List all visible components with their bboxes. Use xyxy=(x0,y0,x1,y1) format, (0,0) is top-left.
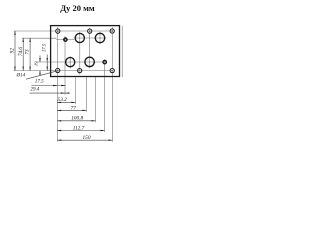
dim 112.7 bottom L6 xyxy=(57,125,104,131)
port I xyxy=(85,57,94,66)
ext col 53.2 xyxy=(74,77,76,105)
svg-text:29.4: 29.4 xyxy=(31,88,40,93)
bolt ring A xyxy=(55,29,60,34)
centerline row B y=39.6 xyxy=(56,39,74,41)
dim 19 vertical stub xyxy=(34,56,41,75)
centerline row top bolts y=31 xyxy=(14,30,115,32)
bolt ring D xyxy=(87,29,92,34)
svg-text:19: 19 xyxy=(34,61,39,66)
ext col 77 xyxy=(85,77,87,112)
dim 77 bottom L4 xyxy=(57,105,86,111)
column A/F + ext 17.5 xyxy=(56,27,58,141)
centerline row ports top y=38 xyxy=(22,37,57,39)
ext col 100.8 xyxy=(95,77,97,123)
column J + ext 112.7 xyxy=(104,59,106,132)
dim 100.8 bottom L5 xyxy=(57,116,95,122)
svg-text:73: 73 xyxy=(25,49,31,55)
column D/I xyxy=(89,28,91,69)
dim 150 bottom L7 xyxy=(57,135,112,141)
column TR/K + ext 150 xyxy=(111,27,113,141)
dim 92 vertical xyxy=(10,31,16,71)
bolt ring K xyxy=(110,68,115,73)
side edge line xyxy=(121,26,123,77)
dim 53.2 bottom L3 xyxy=(57,97,75,103)
svg-text:74.6: 74.6 xyxy=(17,47,24,56)
svg-text:17.5: 17.5 xyxy=(43,43,48,52)
centerline row ports bottom y=62 xyxy=(36,61,107,63)
label dia 14 + leader xyxy=(16,71,58,79)
column G xyxy=(69,56,71,69)
bolt ring F xyxy=(55,68,60,73)
small hole H xyxy=(78,69,82,73)
dim 17.5 bottom L1 xyxy=(32,80,66,87)
column B + ext 29.4 xyxy=(64,36,66,94)
svg-text:Ду 20 мм: Ду 20 мм xyxy=(60,3,95,13)
dim 73 vertical xyxy=(25,38,31,71)
dim 74.6 vertical xyxy=(17,38,24,71)
port E xyxy=(95,33,104,42)
plate outline xyxy=(51,26,120,77)
column C/H xyxy=(79,32,81,75)
svg-text:92: 92 xyxy=(10,48,16,54)
port C xyxy=(75,33,84,42)
centerline row bottom bolts y=70.6 xyxy=(14,70,115,72)
svg-text:17.5: 17.5 xyxy=(35,80,44,85)
port G xyxy=(66,58,75,67)
bolt ring TR xyxy=(110,28,115,33)
dim 17.5 vertical stub xyxy=(43,43,48,70)
column E xyxy=(99,32,101,44)
small hole J xyxy=(103,60,106,63)
dim 29.4 bottom L2 xyxy=(30,88,70,94)
small hole B xyxy=(64,38,67,41)
svg-text:Ø14: Ø14 xyxy=(16,74,26,79)
